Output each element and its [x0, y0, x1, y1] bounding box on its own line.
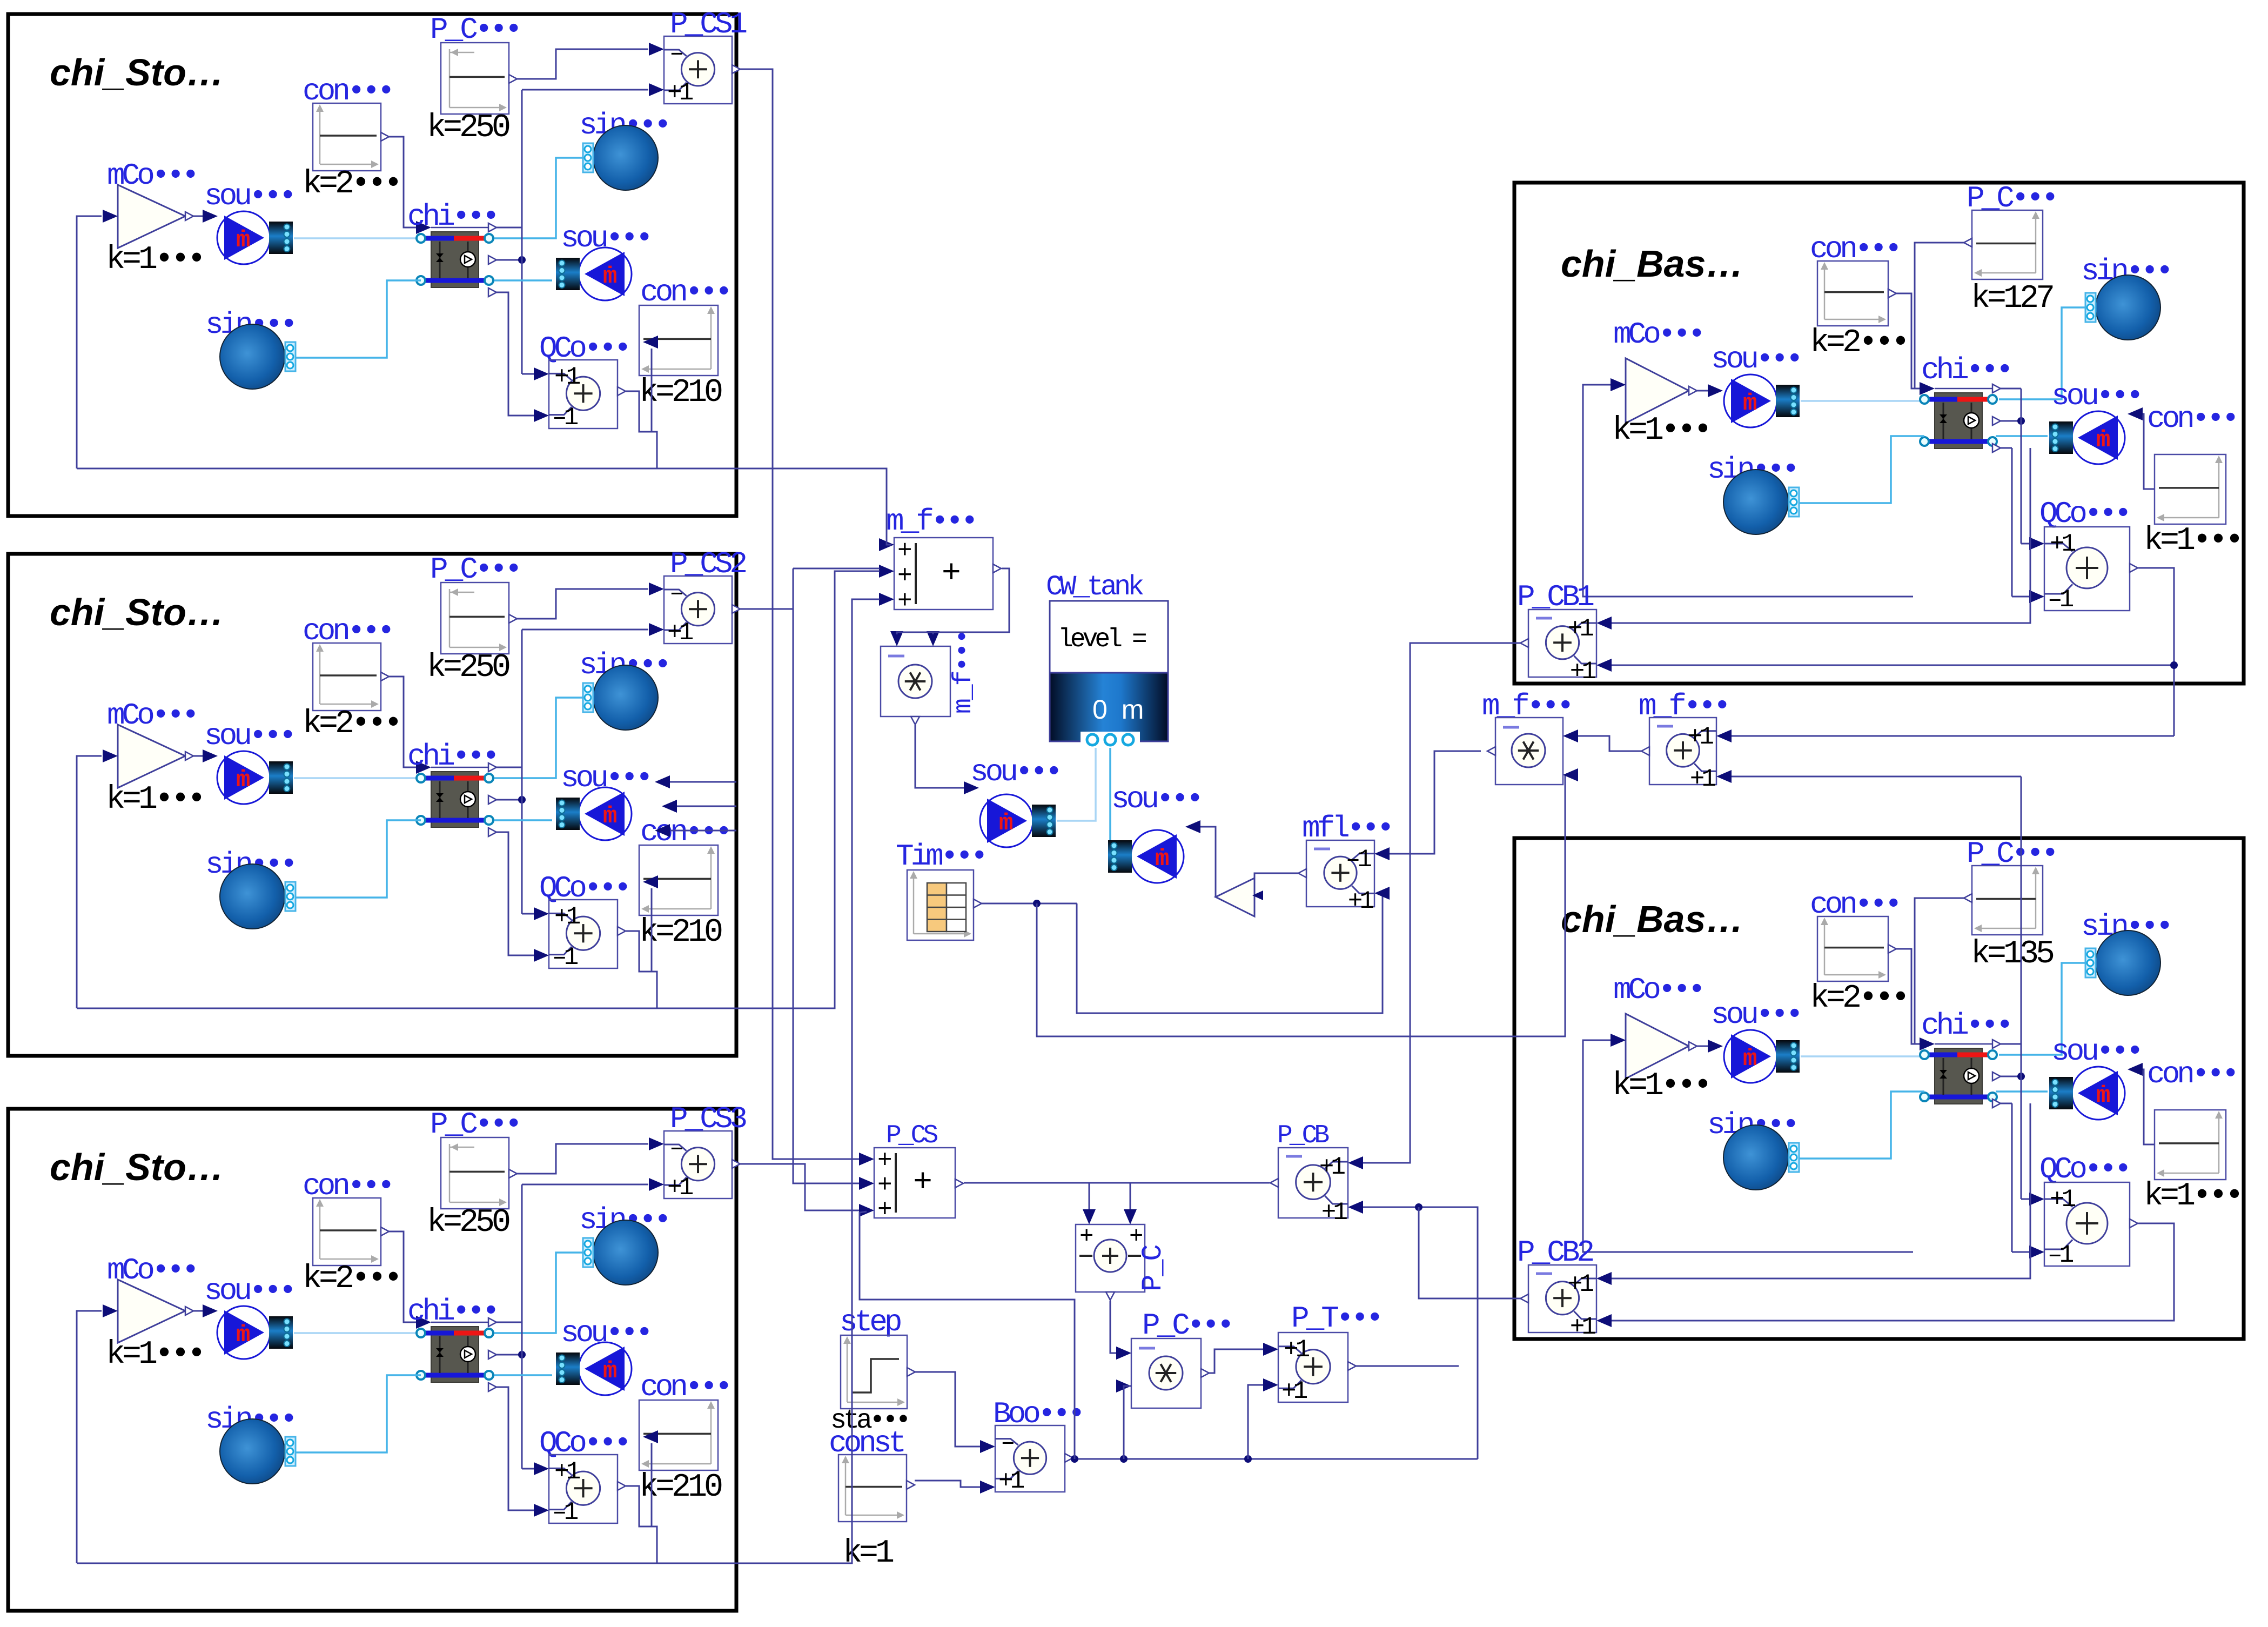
wire gain->pump: [193, 1310, 204, 1312]
svg-text:P_CB: P_CB: [1277, 1121, 1328, 1150]
svg-text:chi•••: chi•••: [407, 199, 497, 234]
subsystem frame chi_Sto: [8, 554, 736, 1056]
wires Tim out: [982, 903, 1077, 905]
svg-text:con•••: con•••: [640, 275, 730, 310]
fluid wire pump->chi: [1801, 400, 1922, 402]
branch Boo -> P_T lower: [1248, 1385, 1263, 1459]
svg-text:–1: –1: [2048, 1241, 2074, 1269]
wires QCo inputs: [2021, 1044, 2022, 1199]
wire con210 -> fan: [651, 1443, 653, 1526]
svg-text:+1: +1: [667, 1174, 693, 1202]
wire QCo out / feedback loop: [626, 1486, 657, 1563]
svg-text:Boo•••: Boo•••: [993, 1397, 1083, 1431]
svg-text:+: +: [913, 1165, 931, 1202]
svg-text:ṁ: ṁ: [603, 803, 617, 830]
svg-text:–1: –1: [552, 943, 578, 972]
svg-text:chi•••: chi•••: [407, 739, 497, 774]
svg-text:+: +: [897, 562, 911, 590]
wire gain->pump: [193, 755, 204, 757]
extra arrows into box2: [670, 781, 736, 783]
svg-text:+: +: [897, 587, 911, 615]
fluid wire sphere->chiller: [494, 158, 582, 238]
wire P_CS+P_CB -> P_C adder: [964, 1182, 1270, 1184]
svg-text:0 m: 0 m: [1092, 694, 1147, 725]
wire P_C -> P_CS in1: [517, 589, 648, 619]
wire con1 -> fan: [2140, 414, 2155, 489]
svg-text:sou•••: sou•••: [204, 179, 294, 213]
subsystem frame chi_Bas: [1514, 183, 2244, 684]
svg-text:sou•••: sou•••: [970, 755, 1060, 789]
wire P_C -> chi: [1915, 243, 1964, 389]
fluid wire chi->sink2: [296, 1375, 421, 1452]
subsystem frame chi_Bas: [1514, 838, 2244, 1339]
svg-text:P_C: P_C: [1137, 1246, 1169, 1291]
svg-text:+1: +1: [1568, 1270, 1594, 1298]
svg-text:mCo•••: mCo•••: [1613, 973, 1703, 1007]
svg-text:chi•••: chi•••: [407, 1294, 497, 1329]
wire P_C -> P_CS in1: [517, 1144, 648, 1174]
svg-text:–1: –1: [552, 1498, 578, 1526]
svg-text:k=1•••: k=1•••: [106, 242, 203, 278]
svg-text:P_C•••: P_C•••: [430, 552, 520, 587]
svg-text:QCo•••: QCo•••: [539, 331, 629, 366]
svg-text:con•••: con•••: [640, 815, 730, 849]
svg-text:–1: –1: [1346, 846, 1372, 874]
wire P_CB2 out -> up: [1419, 1207, 1520, 1298]
svg-text:+1: +1: [667, 79, 693, 107]
svg-text:sou•••: sou•••: [1111, 782, 1201, 816]
svg-text:sou•••: sou•••: [2051, 1034, 2141, 1069]
svg-text:m_f•••: m_f•••: [886, 504, 976, 539]
branch Boo -> P_CS area loop: [860, 1211, 1075, 1459]
wire const -> Boo: [915, 1481, 980, 1487]
fluid tank->fan: [1109, 748, 1111, 843]
subsystem frame chi_Sto: [8, 14, 736, 516]
chi_Bas subsystem 1: [1514, 181, 2244, 686]
svg-text:k=2•••: k=2•••: [303, 706, 400, 742]
wire gain->pump: [193, 216, 204, 217]
svg-text:chi•••: chi•••: [1921, 1008, 2011, 1043]
wire QCo out / feedback loop: [626, 931, 657, 1008]
svg-text:+: +: [877, 1196, 891, 1224]
svg-text:–1: –1: [2048, 586, 2074, 614]
wire P_C -> P_CS in1: [517, 49, 648, 79]
svg-text:QCo•••: QCo•••: [539, 871, 629, 906]
wire P_C -> product: [1110, 1301, 1116, 1353]
fluid wire sphere->chi: [1999, 963, 2085, 1055]
svg-text:P_CS2: P_CS2: [670, 547, 746, 581]
svg-text:+1: +1: [1570, 658, 1596, 686]
wire con->chi: [389, 677, 416, 767]
wire con->chi: [1896, 293, 1920, 389]
fluid wire chi->fan: [494, 279, 552, 282]
svg-text:sou•••: sou•••: [204, 1274, 294, 1308]
svg-text:+1: +1: [1319, 1153, 1345, 1181]
svg-text:+1: +1: [667, 619, 693, 647]
svg-text:+: +: [942, 555, 959, 592]
svg-text:+: +: [897, 537, 911, 565]
fluid wire sphere->chi: [1999, 307, 2085, 399]
wire con210 -> fan: [651, 888, 653, 972]
svg-text:QCo•••: QCo•••: [539, 1426, 629, 1461]
svg-text:P_CS: P_CS: [886, 1121, 937, 1150]
wires m_f add inputs: [1732, 735, 2174, 737]
adder P_CS: [664, 1131, 732, 1199]
svg-text:sou•••: sou•••: [204, 719, 294, 753]
corridor verticals (P_CS1/2/3 outputs to sums): [740, 69, 859, 1159]
svg-text:ṁ: ṁ: [2096, 1082, 2110, 1109]
svg-text:QCo•••: QCo•••: [2039, 497, 2129, 531]
wire m_f add -> m_f prod: [1578, 736, 1641, 751]
adder P_CS: [664, 36, 732, 104]
svg-text:+1: +1: [554, 903, 580, 931]
wire step -> Boo: [915, 1372, 980, 1447]
svg-text:sou•••: sou•••: [1711, 997, 1801, 1032]
svg-text:–: –: [1001, 1429, 1014, 1457]
svg-text:P_C•••: P_C•••: [1142, 1308, 1232, 1343]
adder P_CB: [1528, 610, 1596, 677]
svg-text:Tim•••: Tim•••: [896, 839, 985, 874]
fluid chi->fan: [1996, 435, 2048, 437]
svg-text:sou•••: sou•••: [1711, 342, 1801, 377]
svg-text:ṁ: ṁ: [1743, 390, 1757, 417]
wire QCo out -> P_CB lower input: [1612, 1223, 2174, 1321]
svg-text:ṁ: ṁ: [1743, 1046, 1757, 1073]
svg-text:k=2•••: k=2•••: [1810, 325, 1907, 361]
adder P_C (rotated): [1076, 1224, 1145, 1292]
svg-text:k=250: k=250: [427, 650, 509, 686]
svg-text:+1: +1: [1690, 765, 1716, 793]
svg-text:sou•••: sou•••: [2051, 379, 2141, 413]
svg-text:ṁ: ṁ: [2096, 427, 2110, 454]
svg-text:k=1•••: k=1•••: [2144, 1178, 2241, 1215]
svg-text:k=135: k=135: [1971, 936, 2054, 973]
chi_Sto subsystem 1: [8, 12, 740, 516]
wire product -> P_T: [1209, 1349, 1263, 1373]
svg-text:+1: +1: [998, 1467, 1024, 1495]
chi_Sto subsystem 2: [8, 552, 740, 1056]
fluid chi->fan: [1996, 1090, 2048, 1093]
fluid wire chi->fan: [494, 819, 552, 821]
svg-text:const: const: [829, 1426, 903, 1461]
wire m_f sum -> product: [897, 568, 1009, 634]
wire chi -> P_CB upper input: [1612, 448, 2030, 623]
product m_f (times pump flow): [881, 646, 950, 717]
wires QCo inputs: [2021, 389, 2022, 544]
svg-text:–1: –1: [552, 404, 578, 432]
fluid wire sphere->chiller: [494, 698, 582, 778]
svg-text:+1: +1: [1348, 887, 1374, 915]
fluid wire pump->chiller: [294, 237, 419, 239]
svg-text:k=2•••: k=2•••: [303, 166, 400, 203]
svg-text:con•••: con•••: [640, 1370, 730, 1404]
svg-text:ṁ: ṁ: [236, 227, 250, 254]
svg-text:mCo•••: mCo•••: [1613, 317, 1703, 352]
svg-text:P_C•••: P_C•••: [430, 12, 520, 47]
svg-text:P_CS3: P_CS3: [670, 1102, 746, 1136]
svg-text:ṁ: ṁ: [1155, 846, 1169, 873]
svg-text:+: +: [877, 1147, 891, 1175]
svg-text:+1: +1: [1570, 1313, 1596, 1341]
wire con1 -> fan: [2140, 1069, 2155, 1144]
wires chi outputs: [2001, 420, 2021, 422]
fluid wire pump->chi: [1801, 1055, 1922, 1057]
fluid wire chi->sink2: [296, 820, 421, 898]
wire buffer -> fan: [1200, 827, 1216, 897]
svg-text:+: +: [877, 1171, 891, 1200]
svg-text:–: –: [669, 39, 682, 68]
svg-text:k=250: k=250: [427, 110, 509, 146]
wire product -> pump sou: [915, 725, 965, 788]
fluid wire pump->chiller: [294, 777, 419, 779]
wire P_CB1 out -> P_CB upper in: [1363, 643, 1520, 1163]
svg-text:+: +: [1079, 1223, 1092, 1250]
buffer triangle: [1254, 873, 1299, 889]
fluid wire sphere->chiller: [494, 1253, 582, 1333]
svg-text:ṁ: ṁ: [236, 767, 250, 794]
wire m_f prod -> mfl upper: [1390, 751, 1481, 854]
wire P_C -> chi: [1915, 898, 1964, 1044]
wires chi outputs: [496, 1322, 522, 1323]
svg-text:m_f•••: m_f•••: [1639, 689, 1728, 724]
svg-text:ṁ: ṁ: [603, 1358, 617, 1385]
wires chi outputs: [496, 227, 522, 229]
svg-text:–: –: [669, 1134, 682, 1162]
svg-text:QCo•••: QCo•••: [2039, 1152, 2129, 1187]
svg-text:+1: +1: [554, 363, 580, 391]
svg-text:chi_Sto…: chi_Sto…: [50, 1146, 224, 1188]
chi_Bas subsystem 2: [1514, 836, 2244, 1341]
fluid pump->tank: [1057, 748, 1096, 821]
svg-text:+1: +1: [1284, 1336, 1310, 1364]
svg-text:chi_Sto…: chi_Sto…: [50, 591, 224, 633]
svg-text:k=2•••: k=2•••: [303, 1261, 400, 1297]
svg-text:+1: +1: [1568, 615, 1594, 643]
svg-text:ṁ: ṁ: [999, 810, 1013, 837]
svg-text:k=2•••: k=2•••: [1810, 980, 1907, 1017]
wire con210 -> fan: [651, 349, 653, 432]
fluid wire chi->sink2: [296, 280, 421, 358]
fluid wire pump->chiller: [294, 1332, 419, 1334]
fluid chi->sink2: [1799, 1092, 1924, 1159]
wires chi outputs: [2001, 1076, 2021, 1077]
wire con->chi: [1896, 949, 1920, 1044]
svg-text:+1: +1: [2050, 1186, 2076, 1214]
svg-text:+1: +1: [1321, 1199, 1347, 1227]
svg-text:con•••: con•••: [2147, 1057, 2237, 1092]
svg-text:chi_Bas…: chi_Bas…: [1561, 898, 1743, 940]
svg-text:k=250: k=250: [427, 1204, 509, 1241]
svg-text:level =: level =: [1058, 625, 1146, 654]
svg-text:k=1•••: k=1•••: [1612, 412, 1709, 449]
svg-text:–: –: [669, 579, 682, 607]
svg-text:P_T•••: P_T•••: [1291, 1301, 1381, 1336]
svg-text:k=1: k=1: [843, 1535, 894, 1572]
wire QCo out -> P_CB lower input: [1612, 568, 2174, 665]
adder P_CS: [664, 576, 732, 644]
svg-text:P_CB1: P_CB1: [1517, 580, 1593, 614]
corridor verticals (QCo outs to m_f sum): [736, 468, 891, 545]
svg-text:k=1•••: k=1•••: [106, 781, 203, 818]
wires chi outputs: [496, 767, 522, 768]
svg-text:con•••: con•••: [2147, 401, 2237, 436]
svg-text:chi_Sto…: chi_Sto…: [50, 51, 224, 93]
fluid wire chi->fan: [494, 1374, 552, 1376]
svg-text:CW_tank: CW_tank: [1046, 571, 1143, 603]
subsystem frame chi_Sto: [8, 1109, 736, 1611]
svg-text:k=127: k=127: [1971, 280, 2053, 317]
wire Boo out (long): [1073, 1458, 1478, 1460]
svg-text:step: step: [840, 1305, 901, 1340]
chi_Sto subsystem 3: [8, 1107, 740, 1611]
svg-text:k=1•••: k=1•••: [2144, 523, 2241, 559]
svg-text:chi•••: chi•••: [1921, 353, 2011, 387]
svg-text:P_C•••: P_C•••: [430, 1107, 520, 1142]
feedback loop: [1583, 385, 1913, 597]
svg-text:+1: +1: [554, 1458, 580, 1486]
svg-text:k=1•••: k=1•••: [1612, 1068, 1709, 1104]
svg-text:P_CS1: P_CS1: [670, 7, 746, 42]
svg-text:ṁ: ṁ: [236, 1322, 250, 1349]
svg-text:+1: +1: [2050, 530, 2076, 558]
wire QCo out / feedback loop: [626, 391, 657, 468]
wire chi -> P_CB upper input: [1612, 1103, 2030, 1278]
svg-text:ṁ: ṁ: [603, 263, 617, 290]
wire con->chi: [389, 137, 416, 227]
branch Boo -> P_CB lower in: [1363, 1207, 1478, 1459]
svg-text:chi_Bas…: chi_Bas…: [1561, 243, 1743, 285]
wire con->chi: [389, 1231, 416, 1322]
svg-text:P_CB2: P_CB2: [1517, 1235, 1593, 1270]
feedback loop: [1583, 1040, 1913, 1252]
fluid chi->sink2: [1799, 436, 1924, 503]
svg-text:+1: +1: [1281, 1377, 1307, 1405]
branch Boo -> product lower: [1124, 1386, 1131, 1459]
svg-text:+1: +1: [1688, 723, 1714, 751]
svg-text:m_f•••: m_f•••: [949, 630, 978, 714]
svg-text:k=1•••: k=1•••: [106, 1336, 203, 1373]
adder P_CB: [1528, 1265, 1596, 1333]
